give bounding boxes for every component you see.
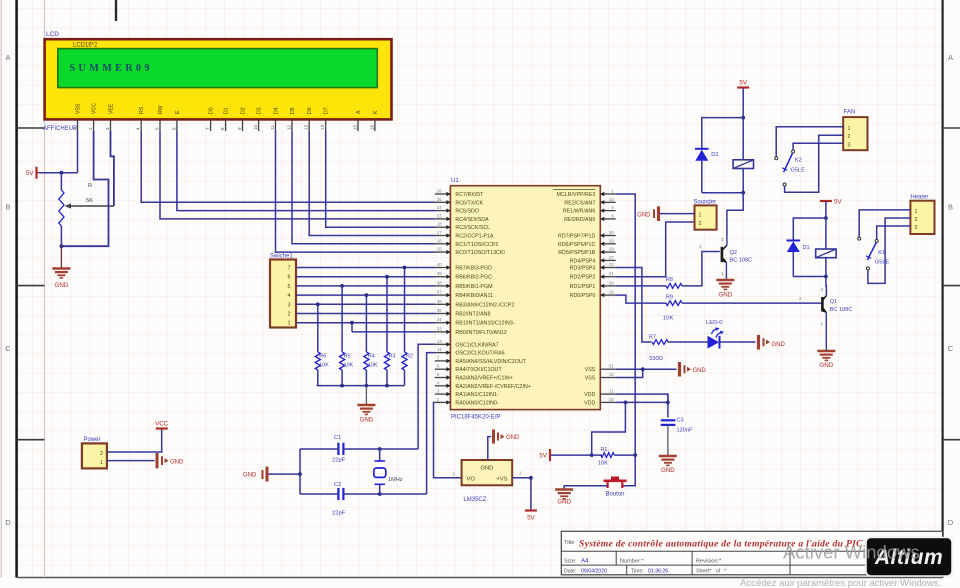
wire relay to Q2 collector <box>727 193 743 236</box>
svg-text:GND: GND <box>506 435 520 441</box>
svg-text:RD5/PSP5/P1B: RD5/PSP5/P1B <box>558 250 596 256</box>
wire D2 to bottom rail <box>701 161 703 193</box>
power port 5V relay1 <box>820 199 843 206</box>
power port 5V relay2 <box>737 80 749 88</box>
junction pot bottom <box>60 244 64 248</box>
svg-text:1: 1 <box>721 271 724 276</box>
wire 5V rail to VSS <box>40 172 78 174</box>
wire crystal top rail <box>345 448 418 450</box>
relay coil K2 <box>733 118 753 193</box>
svg-text:GND: GND <box>55 282 69 289</box>
junction crystal bottom <box>378 492 382 496</box>
zone ticks left <box>17 128 45 440</box>
svg-text:RE2/CS/AN7: RE2/CS/AN7 <box>564 200 595 206</box>
svg-text:2: 2 <box>100 451 103 457</box>
wire R8 to Q2 base <box>682 252 720 286</box>
svg-text:15: 15 <box>437 247 442 252</box>
LED LED-0 <box>706 320 724 349</box>
svg-text:VSS: VSS <box>76 103 82 114</box>
svg-text:RB2/INT2/AN8: RB2/INT2/AN8 <box>455 312 490 318</box>
svg-text:Sheet*: Sheet* <box>696 569 712 575</box>
svg-text:8: 8 <box>220 127 225 130</box>
ground pot <box>52 269 70 290</box>
svg-text:10K: 10K <box>344 363 354 369</box>
svg-text:2: 2 <box>88 127 93 130</box>
svg-text:VCC: VCC <box>92 103 98 114</box>
svg-text:37: 37 <box>437 290 442 295</box>
IC U1 left pins RB <box>435 262 515 336</box>
junction LM35 VS <box>529 476 533 480</box>
svg-text:22pF: 22pF <box>332 458 346 464</box>
svg-text:12: 12 <box>609 372 614 377</box>
svg-text:D2: D2 <box>241 107 247 114</box>
crystal Y1 1MHz <box>374 449 403 494</box>
svg-text:OSC1/CLKIN/RA7: OSC1/CLKIN/RA7 <box>455 342 498 348</box>
IC U1 right pins VSS VDD <box>584 364 616 407</box>
svg-text:15: 15 <box>353 124 358 130</box>
svg-text:BC 108C: BC 108C <box>830 307 853 313</box>
svg-text:5V: 5V <box>539 453 547 460</box>
svg-text:D2: D2 <box>711 152 718 158</box>
svg-text:C1: C1 <box>334 435 341 441</box>
svg-text:5V: 5V <box>527 515 535 522</box>
LCD module body <box>45 39 392 119</box>
ground C3 <box>659 456 677 474</box>
svg-text:VDD: VDD <box>584 392 595 398</box>
svg-text:RB3/AN9/C12IN2-/CCP2: RB3/AN9/C12IN2-/CCP2 <box>455 302 514 308</box>
svg-text:36: 36 <box>437 299 442 304</box>
svg-text:RC6/TX/CK: RC6/TX/CK <box>455 200 483 206</box>
button Bouton <box>604 477 627 498</box>
svg-text:D5: D5 <box>290 107 296 114</box>
svg-text:13: 13 <box>437 339 442 344</box>
svg-text:D6: D6 <box>307 107 313 114</box>
wire VDD pins rail <box>616 394 670 417</box>
svg-text:E: E <box>175 110 181 114</box>
svg-text:RC4/SDI/SDA: RC4/SDI/SDA <box>455 217 489 223</box>
wire VCC loop to pot bottom <box>61 131 108 246</box>
LCD pin stubs and numbers <box>72 119 375 131</box>
junction VDD button node <box>624 401 628 405</box>
sheet border left <box>15 0 18 578</box>
ground Q1 <box>817 351 835 369</box>
svg-text:32: 32 <box>609 397 614 402</box>
svg-text:RD2/PSP2: RD2/PSP2 <box>570 275 596 281</box>
svg-text:10: 10 <box>609 197 614 202</box>
IC U1 right pins RD7-RD4 <box>558 230 616 264</box>
svg-text:Revision:*: Revision:* <box>696 559 722 565</box>
svg-text:C3: C3 <box>677 418 684 424</box>
resistor R6 10K pullup <box>315 302 329 385</box>
svg-text:10K: 10K <box>663 316 673 322</box>
svg-text:K1: K1 <box>878 250 885 256</box>
svg-text:5V: 5V <box>739 80 747 87</box>
svg-text:5: 5 <box>288 284 291 290</box>
wire FAN pin2 to switch throw <box>785 135 844 192</box>
svg-text:12: 12 <box>287 124 292 130</box>
wire 5V to R1 <box>551 454 592 456</box>
ground port crystal <box>243 467 267 482</box>
ground port Sounder <box>637 206 658 221</box>
svg-text:6: 6 <box>171 127 176 130</box>
power port 5V R1 <box>539 449 550 461</box>
svg-text:GND: GND <box>637 212 651 218</box>
IC U1 left pins RC <box>435 189 505 257</box>
svg-text:RD7/PSP7/P1D: RD7/PSP7/P1D <box>558 234 596 240</box>
connector Swiche1 body <box>270 260 296 328</box>
svg-text:13: 13 <box>304 124 309 130</box>
svg-text:Bouton: Bouton <box>606 492 625 498</box>
svg-text:GND: GND <box>360 417 374 424</box>
wire VSS pins to gnd port <box>616 367 677 377</box>
svg-text:10: 10 <box>253 124 258 130</box>
wire crystal bottom rail <box>345 493 427 495</box>
svg-text:RD4/PSP4: RD4/PSP4 <box>570 258 596 264</box>
wire button right to MCLR node <box>622 455 635 486</box>
wire 5V down to junction <box>742 89 744 118</box>
svg-text:11: 11 <box>609 389 614 394</box>
ground port Power <box>157 453 184 468</box>
svg-text:VSS: VSS <box>585 367 596 373</box>
wire button left to gnd <box>564 486 607 489</box>
wire relay bottom rail <box>702 192 743 194</box>
wire RW to RC4 <box>160 131 435 219</box>
IC U1 right pins RE and MCLR <box>553 189 615 223</box>
svg-text:2: 2 <box>799 296 802 301</box>
svg-text:1: 1 <box>100 460 103 466</box>
svg-text:B: B <box>948 203 953 212</box>
svg-text:26: 26 <box>437 189 442 194</box>
svg-text:Q1: Q1 <box>830 299 837 305</box>
svg-text:22pF: 22pF <box>332 511 346 517</box>
svg-text:VCC: VCC <box>155 421 169 428</box>
svg-text:29: 29 <box>609 238 614 243</box>
svg-text:1: 1 <box>699 213 702 219</box>
svg-text:1MHz: 1MHz <box>388 477 403 483</box>
wire E to RC5 <box>177 131 435 211</box>
svg-text:16: 16 <box>437 238 442 243</box>
svg-text:2: 2 <box>453 472 456 477</box>
connector FAN body <box>843 117 867 150</box>
diode D1 <box>787 241 810 253</box>
svg-text:38: 38 <box>437 280 442 285</box>
svg-text:RA5/AN4/SS/HLVDIN/C2OUT: RA5/AN4/SS/HLVDIN/C2OUT <box>455 359 526 365</box>
svg-text:D0: D0 <box>209 107 215 114</box>
wire LED to gnd <box>720 341 756 343</box>
wire RS to RC6 <box>141 131 435 202</box>
LCD pin labels <box>76 103 379 114</box>
svg-text:2: 2 <box>699 221 702 227</box>
svg-text:10K: 10K <box>319 363 329 369</box>
svg-text:of: of <box>716 569 721 575</box>
svg-text:RD0/PSP0: RD0/PSP0 <box>570 293 596 299</box>
junction R1 left <box>590 453 594 457</box>
svg-text:G5LE: G5LE <box>875 260 890 266</box>
connector Power body <box>82 443 107 468</box>
wire FAN pin3 to switch contact <box>793 143 843 149</box>
zone ticks right <box>943 128 960 440</box>
svg-text:U1: U1 <box>451 178 459 184</box>
svg-text:33: 33 <box>437 326 442 331</box>
junction pot top <box>60 171 64 175</box>
svg-text:RC3/SCK/SCL: RC3/SCK/SCL <box>455 225 490 231</box>
svg-text:3: 3 <box>721 237 724 242</box>
wire FAN pin1 to switch common <box>776 127 843 157</box>
svg-text:R: R <box>88 183 92 189</box>
svg-text:RB4/KBI0/AN11: RB4/KBI0/AN11 <box>455 293 493 299</box>
svg-text:RS: RS <box>139 106 145 114</box>
svg-text:3: 3 <box>288 302 291 308</box>
resistor R4 10K pullup <box>364 293 378 385</box>
zone letters left <box>5 53 11 527</box>
svg-text:Title: Title <box>564 540 574 546</box>
svg-text:23: 23 <box>437 213 442 218</box>
ground port LED <box>759 335 786 350</box>
svg-text:+VS: +VS <box>496 477 507 483</box>
svg-text:A4: A4 <box>581 559 589 565</box>
svg-text:11: 11 <box>270 125 275 130</box>
svg-text:09/04/2020: 09/04/2020 <box>581 569 607 575</box>
svg-text:Size:: Size: <box>564 559 577 565</box>
wire 5V relay1 down <box>825 201 827 218</box>
svg-text:RA3/AN3/VREF+/C1IN+: RA3/AN3/VREF+/C1IN+ <box>455 376 512 382</box>
svg-text:1: 1 <box>519 471 522 476</box>
svg-text:A: A <box>948 53 953 62</box>
svg-text:RD1/PSP1: RD1/PSP1 <box>570 284 596 290</box>
svg-text:01:36:26: 01:36:26 <box>648 569 668 575</box>
junction relay bottom <box>741 191 745 195</box>
svg-text:Number:*: Number:* <box>620 559 644 565</box>
junction relay1 bottom <box>824 275 828 279</box>
svg-text:2: 2 <box>699 244 702 249</box>
svg-text:LED-0: LED-0 <box>706 320 722 326</box>
svg-text:RB0/INT0/FLT0/AN12: RB0/INT0/FLT0/AN12 <box>455 330 506 336</box>
svg-text:A: A <box>5 53 10 62</box>
svg-text:RC0/T1OSO/T13CKI: RC0/T1OSO/T13CKI <box>455 250 504 256</box>
wire D5 to RC1 <box>292 131 435 244</box>
svg-text:10K: 10K <box>368 363 378 369</box>
title text <box>564 539 863 550</box>
svg-text:R7: R7 <box>649 335 656 341</box>
svg-text:GND: GND <box>661 467 675 474</box>
svg-text:VSS: VSS <box>585 376 596 382</box>
Altium logo <box>866 538 952 577</box>
svg-text:330Ω: 330Ω <box>649 356 664 362</box>
svg-text:RC5/SDO: RC5/SDO <box>455 209 479 215</box>
svg-text:Time:: Time: <box>631 569 644 575</box>
svg-text:25: 25 <box>437 197 442 202</box>
svg-text:RB1/INT1/AN10/C12IN3-: RB1/INT1/AN10/C12IN3- <box>455 321 514 327</box>
wire VSS down <box>77 131 79 173</box>
svg-text:24: 24 <box>437 205 442 210</box>
svg-text:18: 18 <box>437 222 442 227</box>
svg-text:VDD: VDD <box>584 400 595 406</box>
svg-text:C: C <box>948 344 954 353</box>
svg-text:R3: R3 <box>389 354 396 360</box>
wire D6 to RC2 <box>309 131 435 236</box>
potentiometer R 5K <box>59 173 114 247</box>
junctions on rail <box>340 384 389 388</box>
junction relay1 top <box>824 216 828 220</box>
wire Heater pin3 to switch contact <box>877 226 911 239</box>
svg-text:RA1/AN1/C12IN1-: RA1/AN1/C12IN1- <box>455 392 499 398</box>
ground port LM35 <box>494 430 521 444</box>
wire Sounder pin1 to gnd <box>660 213 695 215</box>
wire relay1 to Q1 collector <box>825 277 828 296</box>
svg-text:VO: VO <box>467 477 476 483</box>
svg-text:R8: R8 <box>666 277 673 283</box>
resistor R2 10K pullup <box>402 266 413 386</box>
svg-text:GND: GND <box>718 292 732 299</box>
wire VEE to pot wiper <box>111 131 114 206</box>
svg-text:14: 14 <box>437 347 442 352</box>
svg-text:PIC18F45K20-E/P: PIC18F45K20-E/P <box>451 415 500 421</box>
svg-text:7: 7 <box>205 127 210 130</box>
wire D7 to RC3 <box>326 131 435 227</box>
svg-text:2: 2 <box>915 217 918 223</box>
wire to D1 branch <box>793 218 826 240</box>
svg-text:D4: D4 <box>274 107 280 114</box>
junction crystal top <box>378 447 382 451</box>
svg-text:AFFICHEUR: AFFICHEUR <box>43 126 78 132</box>
svg-text:Date:: Date: <box>564 569 576 575</box>
connector Heater body <box>910 201 934 234</box>
svg-text:7: 7 <box>288 266 291 272</box>
resistor R3 10K pullup <box>384 275 395 386</box>
sheet border right <box>941 0 943 578</box>
svg-text:RD6/PSP6/P1C: RD6/PSP6/P1C <box>558 242 596 248</box>
power port 5V pot <box>26 167 40 179</box>
svg-text:RC2/CCP1-P1A: RC2/CCP1-P1A <box>455 234 493 240</box>
svg-text:Power: Power <box>84 437 101 443</box>
svg-text:MCLR/VPP/RE3: MCLR/VPP/RE3 <box>556 192 595 198</box>
svg-text:RD3/PSP3: RD3/PSP3 <box>570 266 596 272</box>
IC U1 right pins RD3-RD0 <box>570 262 616 299</box>
junction relay2 top <box>741 116 745 120</box>
capacitor C2 22pF <box>300 482 346 517</box>
title block fields <box>564 559 726 575</box>
svg-text:R4: R4 <box>368 354 375 360</box>
wire LM35 VS to 5V <box>512 478 531 510</box>
svg-text:1: 1 <box>848 126 851 132</box>
svg-text:19: 19 <box>609 290 614 295</box>
svg-text:4: 4 <box>288 293 291 299</box>
svg-text:C2: C2 <box>334 482 341 488</box>
svg-text:A: A <box>356 110 362 114</box>
ground button <box>555 490 573 506</box>
svg-text:GND: GND <box>693 368 707 374</box>
wire rail to ground <box>365 386 367 405</box>
wire RD3 to R7 <box>616 268 652 343</box>
svg-text:34: 34 <box>437 317 442 322</box>
svg-text:9: 9 <box>237 127 242 130</box>
svg-text:K2: K2 <box>795 158 802 164</box>
wire Power pin2 to VCC <box>107 430 162 453</box>
capacitor C3 120nF <box>661 418 693 456</box>
transistor Q1 BC108C <box>821 296 853 351</box>
svg-text:40: 40 <box>437 262 442 267</box>
svg-text:Heater: Heater <box>910 195 928 201</box>
power port 5V LM35 <box>525 511 537 522</box>
svg-text:5V: 5V <box>834 199 842 206</box>
svg-text:3: 3 <box>915 225 918 231</box>
connector Sounder body <box>695 205 717 229</box>
wires header to PIC RB pins <box>296 268 435 332</box>
switch K2 G5LE <box>775 150 805 186</box>
wire OSC1 to crystal rail <box>418 344 435 449</box>
svg-text:VEE: VEE <box>109 103 115 114</box>
svg-text:LCD16*2: LCD16*2 <box>73 43 98 49</box>
svg-text:3: 3 <box>848 142 851 148</box>
capacitor C1 22pF <box>300 435 346 464</box>
wire pullup common rail <box>317 385 405 387</box>
zone tick top <box>115 0 117 21</box>
svg-text:27: 27 <box>609 255 614 260</box>
svg-text:R9: R9 <box>666 295 673 301</box>
wire gnd to cap rail <box>269 473 301 475</box>
LCD green screen <box>58 49 378 88</box>
wire MCLR down <box>616 194 636 455</box>
svg-text:Accédez aux paramètres pour ac: Accédez aux paramètres pour activer Wind… <box>740 578 941 588</box>
svg-text:22: 22 <box>609 262 614 267</box>
svg-text:35: 35 <box>437 308 442 313</box>
svg-text:5: 5 <box>155 127 160 130</box>
svg-text:14: 14 <box>320 124 325 130</box>
svg-text:*: * <box>724 569 726 575</box>
sheet border bottom <box>17 577 943 579</box>
wire D1 to bottom rail <box>792 252 794 277</box>
svg-text:2: 2 <box>288 312 291 318</box>
svg-text:5V: 5V <box>26 170 34 177</box>
wire R9 to Q1 base <box>682 302 821 304</box>
wire pot bottom to ground <box>60 246 62 268</box>
resistor R7 330 <box>649 335 708 363</box>
svg-text:16: 16 <box>369 124 374 130</box>
svg-text:RC7/RX/DT: RC7/RX/DT <box>455 192 484 198</box>
sheet inner border left <box>44 0 46 578</box>
ground Q2 <box>716 280 734 299</box>
svg-text:120nF: 120nF <box>677 428 693 434</box>
svg-text:RE1/WR/AN6: RE1/WR/AN6 <box>563 209 595 215</box>
wire RD0 to R9 <box>616 295 666 303</box>
ground pullup rail <box>357 405 375 424</box>
svg-text:20: 20 <box>609 280 614 285</box>
svg-text:RE0/RD/AN5: RE0/RD/AN5 <box>564 217 595 223</box>
svg-text:6: 6 <box>288 275 291 281</box>
svg-text:30: 30 <box>609 230 614 235</box>
svg-text:D7: D7 <box>324 107 330 114</box>
svg-text:4: 4 <box>136 127 141 130</box>
svg-text:RA4/T0CKI/C1OUT: RA4/T0CKI/C1OUT <box>455 367 502 373</box>
wire to D2 branch <box>702 118 743 149</box>
wire RD2 to Sounder pin2 <box>616 222 695 277</box>
svg-text:RC1/T1OSI/CCP2: RC1/T1OSI/CCP2 <box>455 242 498 248</box>
svg-text:R5: R5 <box>344 354 351 360</box>
svg-text:B: B <box>5 203 10 212</box>
wire relay1 bottom rail <box>793 276 826 278</box>
svg-text:D1: D1 <box>803 245 810 251</box>
resistor R1 10K <box>592 447 636 467</box>
svg-text:LCD: LCD <box>46 31 59 38</box>
svg-text:5K: 5K <box>86 198 93 204</box>
resistor R5 10K pullup <box>340 284 354 386</box>
svg-text:C: C <box>5 344 11 353</box>
svg-text:FAN: FAN <box>844 110 856 116</box>
wire D4 to RC0 <box>276 131 435 252</box>
svg-text:RA2/AN2/VREF-/CVREF/C2IN+: RA2/AN2/VREF-/CVREF/C2IN+ <box>455 384 531 390</box>
svg-text:2: 2 <box>848 134 851 140</box>
svg-text:LM35CZ: LM35CZ <box>463 497 486 503</box>
